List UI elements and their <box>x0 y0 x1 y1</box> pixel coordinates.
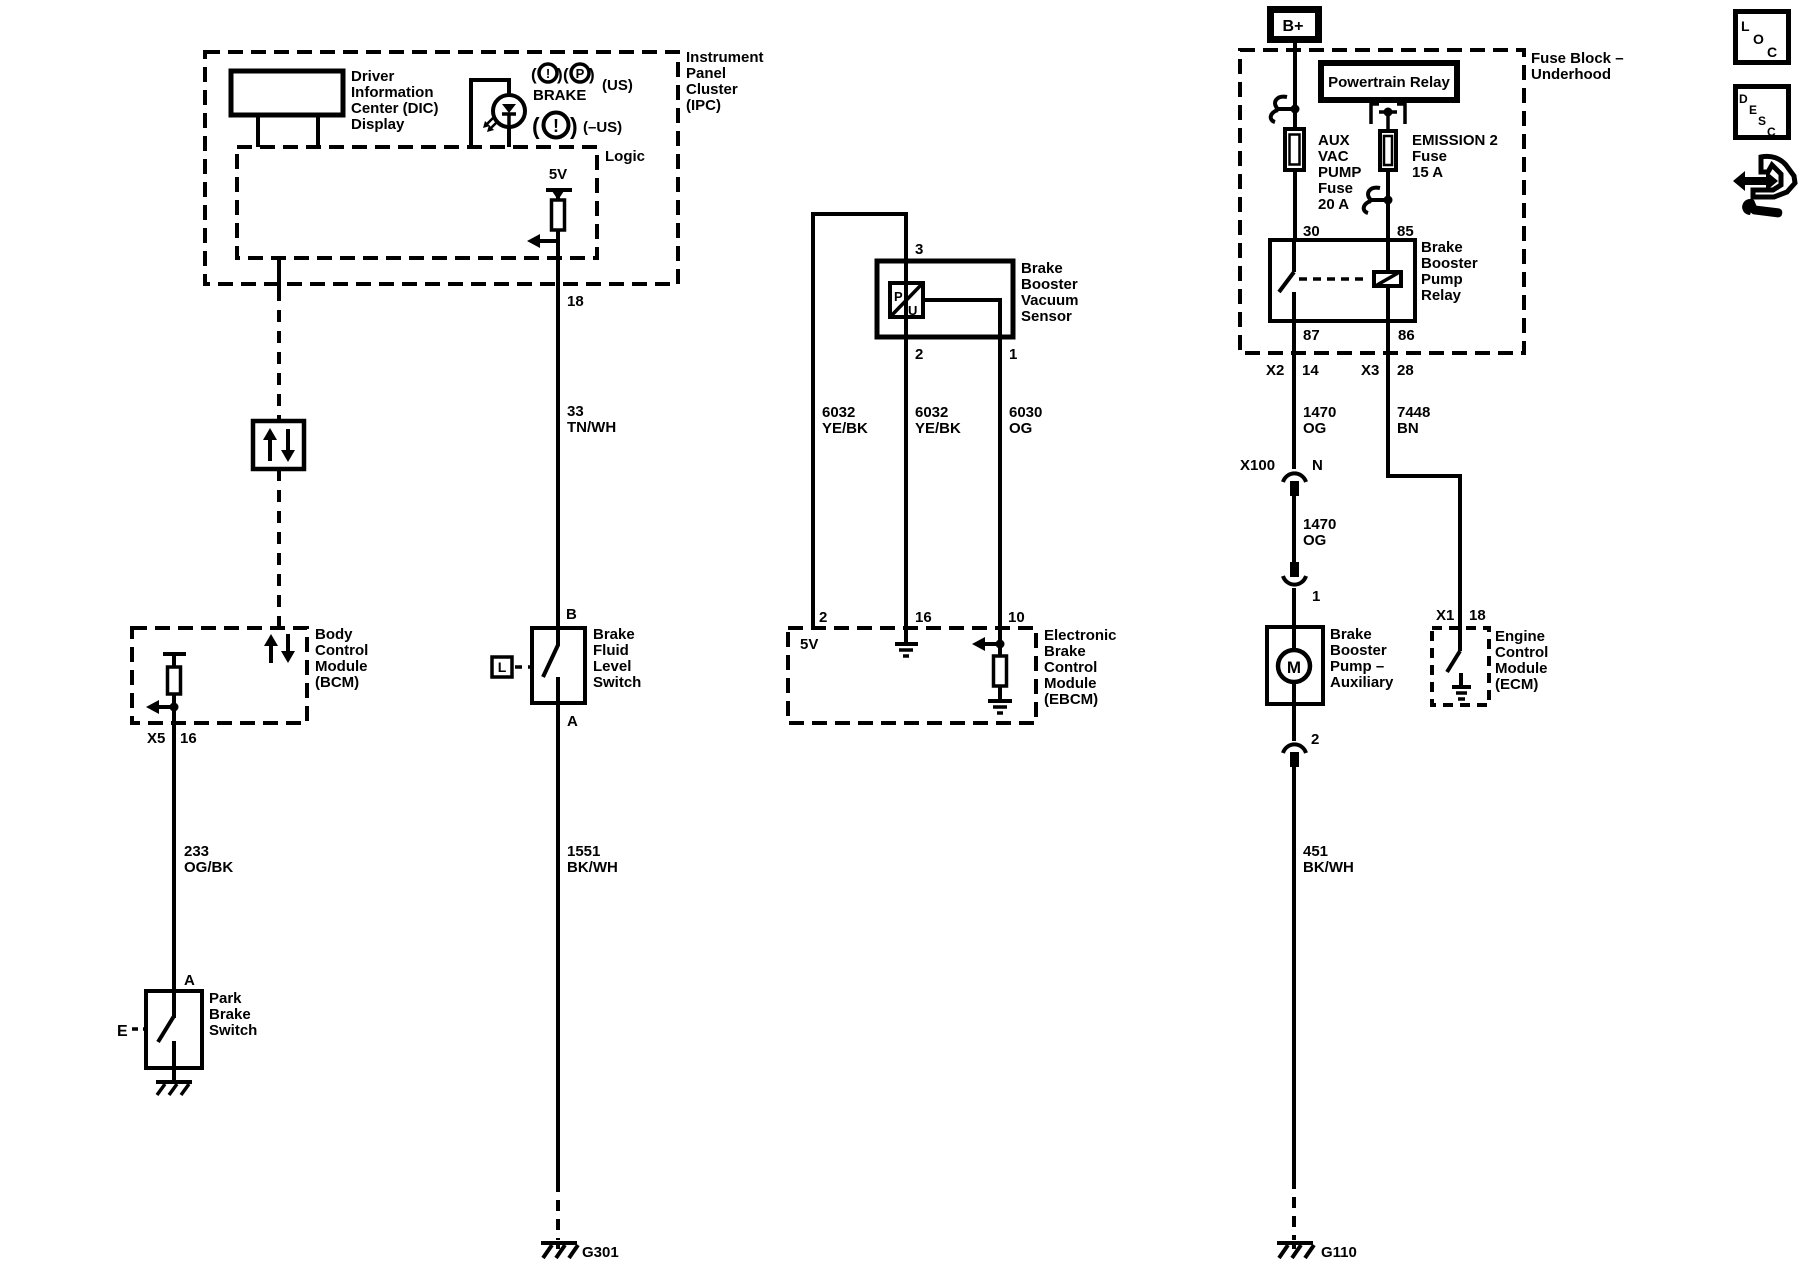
svg-text:86: 86 <box>1398 327 1415 344</box>
svg-text:233: 233 <box>184 843 209 860</box>
svg-text:5V: 5V <box>800 636 818 653</box>
chassis ground at park brake switch <box>156 1082 192 1095</box>
svg-text:7448: 7448 <box>1397 404 1430 421</box>
LED brake indicator U-lamp <box>471 80 525 147</box>
svg-text:6030: 6030 <box>1009 404 1042 421</box>
svg-text:Instrument: Instrument <box>686 49 764 66</box>
signal arrow left in BCM <box>146 700 174 714</box>
svg-text:Driver: Driver <box>351 68 395 85</box>
brake booster pump motor box <box>1267 627 1323 704</box>
brake fluid level switch box <box>532 628 585 703</box>
svg-text:L: L <box>1741 18 1750 34</box>
ground G110 <box>1277 1243 1357 1261</box>
wire serial data from IPC (solid stub) <box>277 258 281 289</box>
svg-text:X100: X100 <box>1240 457 1275 474</box>
connector labels X2 14 X3 28 <box>1266 362 1414 379</box>
svg-text:Fuse: Fuse <box>1318 180 1353 197</box>
indicator symbol (!) (-US) <box>532 113 622 140</box>
svg-text:(: ( <box>532 113 540 139</box>
brake booster pump relay box <box>1270 239 1478 321</box>
dashed wire to G110 <box>1292 1178 1296 1240</box>
wire connector to pump <box>1292 588 1296 627</box>
wire BCM to park brake switch <box>172 723 176 991</box>
svg-text:5V: 5V <box>549 166 567 183</box>
svg-text:(US): (US) <box>602 77 633 94</box>
svg-text:BK/WH: BK/WH <box>1303 859 1354 876</box>
svg-text:Brake: Brake <box>593 626 635 643</box>
svg-text:A: A <box>184 972 195 989</box>
svg-text:P: P <box>576 66 585 81</box>
svg-text:Module: Module <box>1495 660 1548 677</box>
wire label 6032 YE/BK (middle) <box>915 404 961 437</box>
wire serial data dashed lower <box>277 469 281 628</box>
svg-text:Booster: Booster <box>1021 276 1078 293</box>
legend icon jump arrows and wrench <box>1733 156 1795 217</box>
svg-text:Control: Control <box>1495 644 1548 661</box>
pressure transducer P/U element <box>890 283 923 318</box>
svg-text:Engine: Engine <box>1495 628 1545 645</box>
svg-text:Information: Information <box>351 84 434 101</box>
svg-text:Brake: Brake <box>1421 239 1463 256</box>
svg-text:P: P <box>894 289 903 304</box>
svg-text:Booster: Booster <box>1330 642 1387 659</box>
wire fuse to relay pin 30 <box>1293 170 1297 240</box>
svg-text:16: 16 <box>915 609 932 626</box>
connector label X5 16 <box>147 730 197 747</box>
logic sub-box in IPC <box>237 147 645 258</box>
svg-text:Auxiliary: Auxiliary <box>1330 674 1394 691</box>
svg-text:Pump –: Pump – <box>1330 658 1384 675</box>
label Brake Booster Vacuum Sensor <box>1021 260 1079 325</box>
module box Engine Control Module (ECM) <box>1432 628 1548 705</box>
wire relay 86 to ECM <box>1388 321 1460 628</box>
svg-text:BRAKE: BRAKE <box>533 87 586 104</box>
ground G301 <box>541 1243 619 1261</box>
svg-text:B: B <box>566 606 577 623</box>
svg-text:Brake: Brake <box>1044 643 1086 660</box>
serial data symbol box with up/down arrows <box>253 421 304 469</box>
svg-text:): ) <box>570 113 578 139</box>
svg-text:2: 2 <box>1311 731 1319 748</box>
svg-text:Control: Control <box>1044 659 1097 676</box>
svg-text:TN/WH: TN/WH <box>567 419 616 436</box>
svg-text:1551: 1551 <box>567 843 600 860</box>
svg-text:Park: Park <box>209 990 242 1007</box>
svg-text:Display: Display <box>351 116 405 133</box>
wire resistor to node <box>556 230 560 241</box>
label Park Brake Switch <box>209 990 257 1039</box>
wire label 451 BK/WH <box>1303 843 1354 876</box>
relay contact 30-87 <box>1279 240 1294 321</box>
module box Body Control Module (BCM) <box>132 626 368 723</box>
ground symbol under EBCM resistor <box>988 701 1012 713</box>
svg-text:X3: X3 <box>1361 362 1379 379</box>
svg-text:Booster: Booster <box>1421 255 1478 272</box>
svg-text:G110: G110 <box>1321 1244 1357 1261</box>
wire label 1470 OG (lower) <box>1303 516 1336 549</box>
wire switch to ground G301 <box>556 703 560 1181</box>
svg-text:3: 3 <box>915 241 923 258</box>
wire label 1470 OG (upper) <box>1303 404 1336 437</box>
wire DIC display legs <box>256 115 260 147</box>
svg-text:EMISSION 2: EMISSION 2 <box>1412 132 1498 149</box>
junction node in BCM <box>170 703 179 712</box>
svg-text:15 A: 15 A <box>1412 164 1443 181</box>
svg-text:85: 85 <box>1397 223 1414 240</box>
driver switch inside ECM <box>1447 628 1460 672</box>
svg-text:L: L <box>498 659 507 675</box>
wire label 6030 OG <box>1009 404 1042 437</box>
wire IPC pin 18 down <box>556 241 560 628</box>
resistor in EBCM <box>994 656 1007 700</box>
svg-text:X1: X1 <box>1436 607 1454 624</box>
relay socket terminal under Powertrain Relay <box>1371 104 1405 131</box>
svg-text:OG: OG <box>1303 420 1326 437</box>
svg-text:451: 451 <box>1303 843 1328 860</box>
svg-text:Powertrain Relay: Powertrain Relay <box>1328 74 1450 91</box>
svg-text:OG: OG <box>1009 420 1032 437</box>
park brake switch box <box>146 991 202 1068</box>
svg-text:AUX: AUX <box>1318 132 1350 149</box>
signal arrow left at pin 10 <box>972 637 1005 651</box>
svg-text:X5: X5 <box>147 730 165 747</box>
svg-text:BN: BN <box>1397 420 1419 437</box>
svg-text:Module: Module <box>1044 675 1097 692</box>
wire B+ to AUX VAC PUMP fuse <box>1293 43 1297 129</box>
svg-text:16: 16 <box>180 730 197 747</box>
svg-text:C: C <box>1767 44 1777 60</box>
svg-text:1: 1 <box>1312 588 1320 605</box>
fuse EMISSION 2 15A <box>1380 131 1498 181</box>
svg-text:Fuse: Fuse <box>1412 148 1447 165</box>
wire sensor 5V feed loop <box>813 214 906 628</box>
svg-text:6032: 6032 <box>915 404 948 421</box>
svg-text:30: 30 <box>1303 223 1320 240</box>
svg-text:(ECM): (ECM) <box>1495 676 1538 693</box>
svg-text:14: 14 <box>1302 362 1319 379</box>
brake fluid level switch contacts <box>543 628 558 703</box>
svg-text:D: D <box>1739 92 1748 106</box>
relay coil 85-86 <box>1374 240 1401 321</box>
dashed wire to G301 <box>556 1181 560 1240</box>
wire label 233 OG/BK <box>184 843 233 876</box>
svg-text:10: 10 <box>1008 609 1025 626</box>
svg-text:Sensor: Sensor <box>1021 308 1072 325</box>
ground symbol inside ECM <box>1452 673 1471 699</box>
svg-text:Fluid: Fluid <box>593 642 629 659</box>
svg-text:Cluster: Cluster <box>686 81 738 98</box>
wire pump to pin 2 connector <box>1292 704 1296 741</box>
svg-text:Switch: Switch <box>209 1022 257 1039</box>
svg-text:C: C <box>1767 125 1776 139</box>
svg-text:U: U <box>908 303 917 318</box>
svg-text:1470: 1470 <box>1303 516 1336 533</box>
park brake switch contacts <box>158 991 174 1082</box>
label Brake Fluid Level Switch <box>593 626 641 691</box>
svg-text:E: E <box>1749 103 1757 117</box>
label Brake Booster Pump Auxiliary <box>1330 626 1394 691</box>
inline connector X100 (female half) <box>1283 473 1306 496</box>
svg-text:YE/BK: YE/BK <box>822 420 868 437</box>
svg-text:VAC: VAC <box>1318 148 1349 165</box>
svg-text:E: E <box>117 1023 128 1040</box>
inline connector at pump pin 2 <box>1283 744 1306 767</box>
svg-text:Fuse Block –: Fuse Block – <box>1531 50 1624 67</box>
pull-up supply bar in BCM <box>163 652 186 656</box>
brake booster vacuum sensor box <box>877 261 1013 337</box>
wire sensor signal to pin 1 <box>923 300 1000 628</box>
svg-text:1: 1 <box>1009 346 1017 363</box>
svg-text:Switch: Switch <box>593 674 641 691</box>
svg-text:Logic: Logic <box>605 148 645 165</box>
wire pump to ground G110 <box>1292 767 1296 1178</box>
fuse AUX VAC PUMP 20A <box>1285 129 1361 213</box>
svg-text:6032: 6032 <box>822 404 855 421</box>
wire X100 to connector 1 <box>1292 496 1296 562</box>
svg-text:!: ! <box>553 116 559 136</box>
connector label X1 18 <box>1436 607 1486 624</box>
svg-text:87: 87 <box>1303 327 1320 344</box>
svg-text:Body: Body <box>315 626 353 643</box>
svg-text:2: 2 <box>915 346 923 363</box>
wire serial data dashed upper <box>277 289 281 421</box>
svg-text:OG: OG <box>1303 532 1326 549</box>
svg-text:(IPC): (IPC) <box>686 97 721 114</box>
svg-text:33: 33 <box>567 403 584 420</box>
battery feed B+ box <box>1271 10 1319 40</box>
Powertrain Relay feed box <box>1321 63 1457 100</box>
relay actuation dashed link <box>1299 277 1369 281</box>
svg-text:M: M <box>1287 658 1301 677</box>
svg-text:Pump: Pump <box>1421 271 1463 288</box>
svg-text:): ) <box>589 65 595 84</box>
svg-text:2: 2 <box>819 609 827 626</box>
svg-text:!: ! <box>546 66 550 81</box>
svg-text:Vacuum: Vacuum <box>1021 292 1079 309</box>
svg-text:OG/BK: OG/BK <box>184 859 233 876</box>
svg-text:G301: G301 <box>582 1244 619 1261</box>
svg-text:A: A <box>567 713 578 730</box>
svg-text:Center (DIC): Center (DIC) <box>351 100 439 117</box>
DIC display box <box>231 68 439 133</box>
resistor in IPC logic <box>552 200 565 230</box>
svg-text:Electronic: Electronic <box>1044 627 1117 644</box>
svg-text:Control: Control <box>315 642 368 659</box>
serial data arrows inside BCM <box>264 634 295 663</box>
svg-text:18: 18 <box>1469 607 1486 624</box>
svg-text:Panel: Panel <box>686 65 726 82</box>
ground symbol at EBCM pin 16 <box>895 628 918 656</box>
connector L to switch <box>492 657 531 677</box>
svg-text:N: N <box>1312 457 1323 474</box>
svg-text:20 A: 20 A <box>1318 196 1349 213</box>
svg-text:(: ( <box>563 65 569 84</box>
signal arrow left at IPC pin 18 <box>527 234 558 248</box>
terminal hook on 85 wire <box>1364 188 1393 213</box>
svg-text:28: 28 <box>1397 362 1414 379</box>
wire label 6032 YE/BK (left) <box>822 404 868 437</box>
legend icon DESC <box>1736 87 1789 140</box>
svg-text:PUMP: PUMP <box>1318 164 1361 181</box>
svg-text:S: S <box>1758 114 1766 128</box>
svg-text:1470: 1470 <box>1303 404 1336 421</box>
wire EBCM pin 10 internal <box>998 628 1002 656</box>
resistor in BCM <box>168 654 181 723</box>
indicator symbol (!)(P) BRAKE (US) <box>531 64 633 104</box>
module box Fuse Block - Underhood <box>1240 50 1624 353</box>
connector E to park brake switch <box>117 1023 146 1040</box>
svg-text:Module: Module <box>315 658 368 675</box>
5V supply in IPC <box>546 166 572 200</box>
svg-text:B+: B+ <box>1283 18 1304 35</box>
wire EMISSION fuse to relay pin 85 <box>1386 170 1390 240</box>
svg-text:(–US): (–US) <box>583 119 622 136</box>
wire label 33 TN/WH <box>567 403 616 436</box>
svg-text:Underhood: Underhood <box>1531 66 1611 83</box>
svg-text:(EBCM): (EBCM) <box>1044 691 1098 708</box>
svg-text:BK/WH: BK/WH <box>567 859 618 876</box>
module box Electronic Brake Control Module (EBCM) <box>788 627 1117 723</box>
svg-text:): ) <box>557 65 563 84</box>
module box Instrument Panel Cluster (IPC) <box>205 49 764 284</box>
wire label 7448 BN <box>1397 404 1430 437</box>
pin labels 2 16 10 <box>819 609 1025 626</box>
connector label X100 N <box>1240 457 1323 474</box>
svg-text:O: O <box>1753 31 1764 47</box>
svg-text:YE/BK: YE/BK <box>915 420 961 437</box>
legend icon LOC <box>1736 12 1789 63</box>
svg-text:Brake: Brake <box>209 1006 251 1023</box>
svg-text:18: 18 <box>567 293 584 310</box>
svg-text:(BCM): (BCM) <box>315 674 359 691</box>
pin labels 87 86 <box>1303 327 1415 344</box>
svg-text:Level: Level <box>593 658 631 675</box>
svg-text:Brake: Brake <box>1021 260 1063 277</box>
wire sensor pin 2 to EBCM 16 <box>904 261 908 628</box>
inline connector at pump pin 1 <box>1283 562 1306 585</box>
wire label 1551 BK/WH <box>567 843 618 876</box>
wire relay 87 to X100 <box>1292 321 1296 469</box>
svg-text:Brake: Brake <box>1330 626 1372 643</box>
svg-text:X2: X2 <box>1266 362 1284 379</box>
svg-text:Relay: Relay <box>1421 287 1462 304</box>
svg-text:(: ( <box>531 65 537 84</box>
terminal hook at B+ feed <box>1271 97 1300 122</box>
